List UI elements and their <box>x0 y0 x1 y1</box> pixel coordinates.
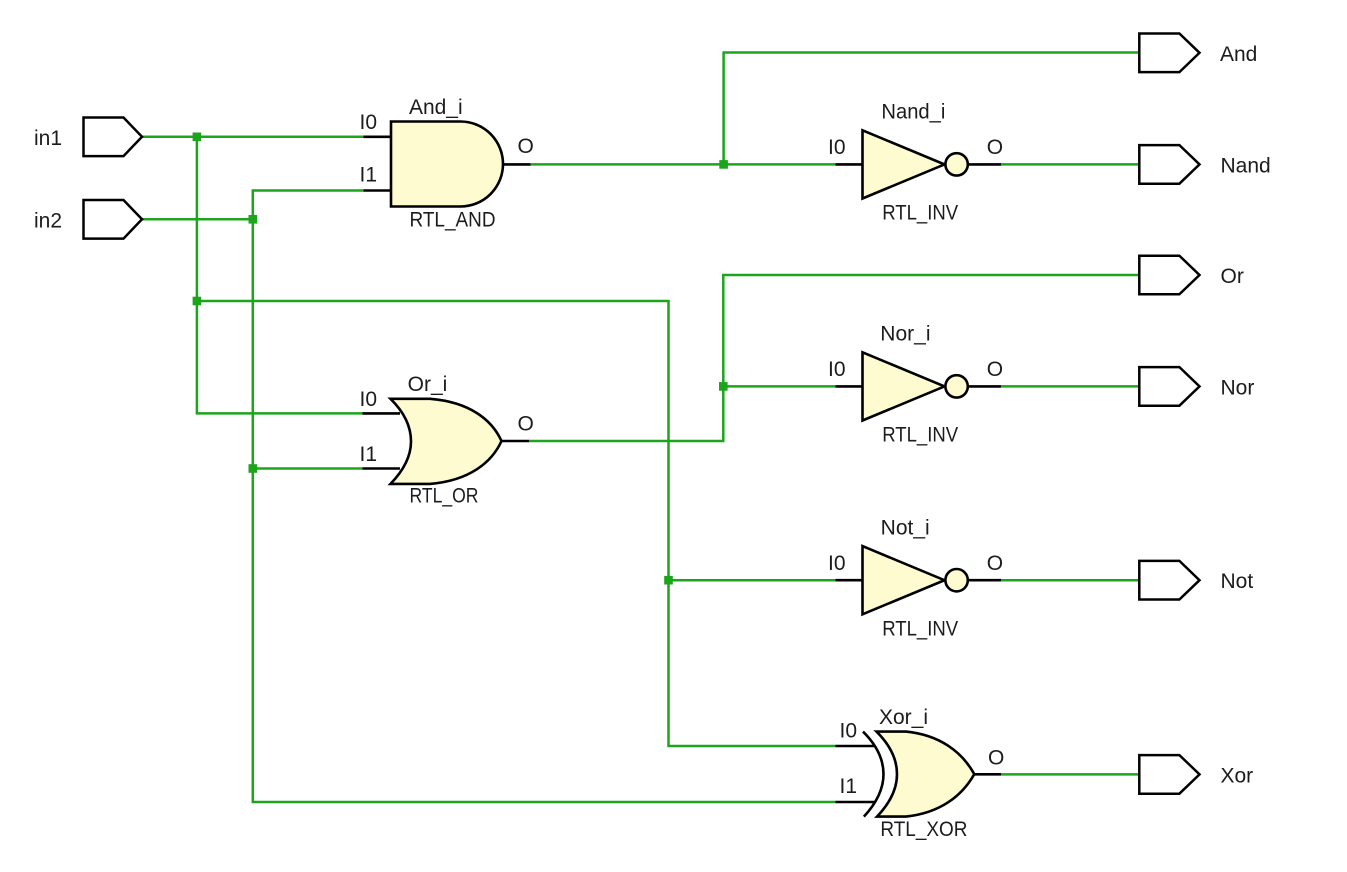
svg-text:I0: I0 <box>828 552 846 575</box>
svg-text:Or: Or <box>1221 265 1244 288</box>
wire net Nand_o <box>1001 163 1139 166</box>
svg-text:RTL_INV: RTL_INV <box>882 202 958 225</box>
svg-text:RTL_XOR: RTL_XOR <box>880 818 967 841</box>
wire net Or_o: Or O riser to Or port <box>529 275 1139 441</box>
svg-text:RTL_OR: RTL_OR <box>410 485 479 508</box>
wire net in1: vertical x197 down to Or I0 <box>197 137 363 414</box>
xor-gate Xor_i pin I1 <box>836 801 876 804</box>
input port in1 <box>84 118 143 157</box>
xor-gate Xor_i body (RTL_XOR) <box>877 732 975 817</box>
or-gate Or_i pin I1 <box>362 467 400 470</box>
svg-text:RTL_AND: RTL_AND <box>410 209 496 232</box>
wire net Or_o: to Nor I0 <box>723 385 835 388</box>
or-gate Or_i pin O <box>502 440 530 443</box>
svg-text:Xor_i: Xor_i <box>879 706 928 729</box>
svg-text:I0: I0 <box>359 111 377 134</box>
wire net in2: riser to And I1 <box>253 191 836 803</box>
svg-text:I1: I1 <box>359 164 377 187</box>
wire net in1: branch y301 to x668 down to Xor I0 <box>197 301 836 746</box>
svg-text:Nand: Nand <box>1221 154 1271 177</box>
or-gate Or_i pin I0 <box>362 412 400 415</box>
output port Nand <box>1139 145 1199 184</box>
inverter Not_i pin O <box>968 579 1001 582</box>
svg-text:I0: I0 <box>839 720 857 743</box>
wire net Nor_o <box>1001 385 1139 388</box>
junction A (in1 / And I0 tap) <box>193 133 202 142</box>
svg-text:I0: I0 <box>828 358 846 381</box>
svg-text:RTL_INV: RTL_INV <box>882 424 958 447</box>
wire net in1: to Not I0 <box>669 579 836 582</box>
inverter Not_i triangle (RTL_INV) <box>863 546 945 614</box>
wire net Not_o <box>1001 579 1139 582</box>
svg-text:Nor: Nor <box>1221 376 1255 399</box>
output port Or <box>1139 256 1199 295</box>
svg-text:Not: Not <box>1221 570 1254 593</box>
inverter Not_i bubble <box>945 569 967 591</box>
svg-text:And_i: And_i <box>409 96 463 119</box>
svg-text:O: O <box>987 552 1003 575</box>
and-gate And_i pin I1 <box>364 189 392 192</box>
and-gate And_i body (RTL_AND) <box>391 122 503 207</box>
inverter Nor_i triangle (RTL_INV) <box>863 352 945 420</box>
svg-text:Nand_i: Nand_i <box>881 101 945 124</box>
junction D (in2 / Or I1 tap) <box>249 464 258 473</box>
inverter Nor_i pin I0 <box>836 385 863 388</box>
svg-text:I1: I1 <box>839 775 857 798</box>
svg-text:Not_i: Not_i <box>881 516 930 539</box>
wire net in2: to Or I1 <box>253 467 363 470</box>
svg-text:I0: I0 <box>828 136 846 159</box>
inverter Nand_i triangle (RTL_INV) <box>863 130 945 198</box>
inverter Nor_i bubble <box>945 375 967 397</box>
svg-text:O: O <box>987 136 1003 159</box>
svg-text:I0: I0 <box>359 388 377 411</box>
output port Xor <box>1139 755 1199 794</box>
output port Not <box>1139 561 1199 600</box>
output port And <box>1139 34 1199 73</box>
and-gate And_i pin I0 <box>364 136 392 139</box>
svg-text:O: O <box>518 413 534 436</box>
junction B (in2 tap) <box>249 215 258 224</box>
xor-gate Xor_i pin O <box>974 773 1001 776</box>
junction G (And_o / Nand I0 tap) <box>719 160 728 169</box>
junction F (in1 / Not I0 tap) <box>664 576 673 585</box>
svg-text:Xor: Xor <box>1221 764 1254 787</box>
svg-text:O: O <box>518 135 534 158</box>
svg-text:O: O <box>987 358 1003 381</box>
inverter Not_i pin I0 <box>836 579 863 582</box>
xor-gate Xor_i pin I0 <box>836 745 876 748</box>
xor-gate Xor_i extra input arc <box>863 732 884 817</box>
wire net And_o: And O to Nand I0 <box>531 163 836 166</box>
svg-text:O: O <box>988 747 1004 770</box>
inverter Nor_i pin O <box>968 385 1001 388</box>
wire net Xor_o <box>1001 773 1139 776</box>
svg-text:in2: in2 <box>34 210 62 233</box>
input port in2 <box>84 200 143 239</box>
wire net in2: port to junction B <box>142 218 253 221</box>
svg-text:Or_i: Or_i <box>408 373 448 396</box>
svg-text:Nor_i: Nor_i <box>880 323 930 346</box>
svg-text:And: And <box>1220 43 1257 66</box>
inverter Nand_i bubble <box>945 153 967 175</box>
junction E (Or_o / Nor I0 tap) <box>719 382 728 391</box>
svg-text:I1: I1 <box>359 443 377 466</box>
junction C (in1 branch y301) <box>193 297 202 306</box>
svg-text:in1: in1 <box>34 127 62 150</box>
and-gate And_i pin O <box>503 163 531 166</box>
inverter Nand_i pin O <box>968 163 1001 166</box>
or-gate Or_i body (RTL_OR) <box>391 399 502 484</box>
svg-text:RTL_INV: RTL_INV <box>882 617 958 640</box>
wire net And_o: riser to And port <box>724 53 1140 165</box>
wire net in1: port to And I0 <box>142 136 364 139</box>
output port Nor <box>1139 367 1199 406</box>
inverter Nand_i pin I0 <box>836 163 863 166</box>
